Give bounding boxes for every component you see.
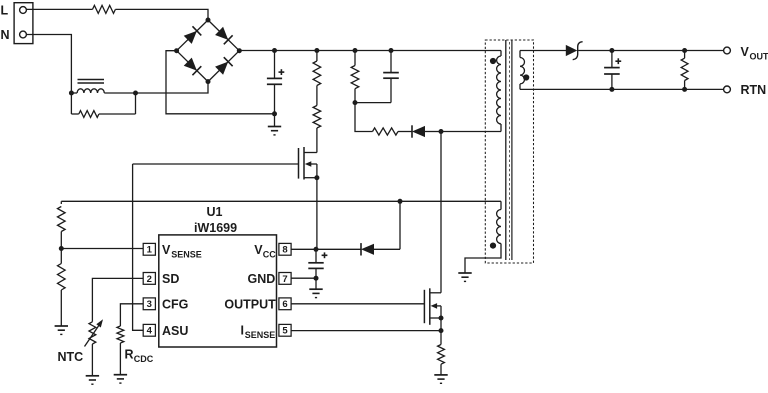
svg-text:V: V (162, 243, 171, 257)
svg-text:OUT: OUT (750, 52, 768, 62)
svg-text:OUTPUT: OUTPUT (224, 298, 276, 312)
svg-text:CFG: CFG (162, 298, 188, 312)
svg-text:GND: GND (248, 272, 276, 286)
svg-text:R: R (125, 347, 134, 361)
svg-text:I: I (241, 324, 244, 338)
svg-text:5: 5 (282, 326, 288, 337)
svg-text:3: 3 (147, 299, 152, 310)
svg-text:U1: U1 (207, 205, 223, 219)
svg-text:CC: CC (263, 250, 276, 260)
svg-text:1: 1 (147, 245, 153, 256)
svg-text:SENSE: SENSE (171, 250, 202, 260)
svg-text:RTN: RTN (741, 83, 767, 97)
svg-text:7: 7 (282, 274, 287, 285)
svg-text:SENSE: SENSE (245, 330, 276, 340)
svg-text:4: 4 (147, 326, 153, 337)
svg-text:iW1699: iW1699 (194, 221, 237, 235)
svg-text:NTC: NTC (58, 350, 84, 364)
svg-text:V: V (741, 45, 750, 59)
svg-text:6: 6 (282, 299, 287, 310)
svg-text:CDC: CDC (134, 354, 154, 364)
svg-text:L: L (1, 3, 9, 17)
svg-text:2: 2 (147, 274, 152, 285)
svg-text:ASU: ASU (162, 324, 188, 338)
svg-text:8: 8 (282, 245, 287, 256)
svg-text:SD: SD (162, 272, 179, 286)
svg-text:N: N (1, 28, 10, 42)
